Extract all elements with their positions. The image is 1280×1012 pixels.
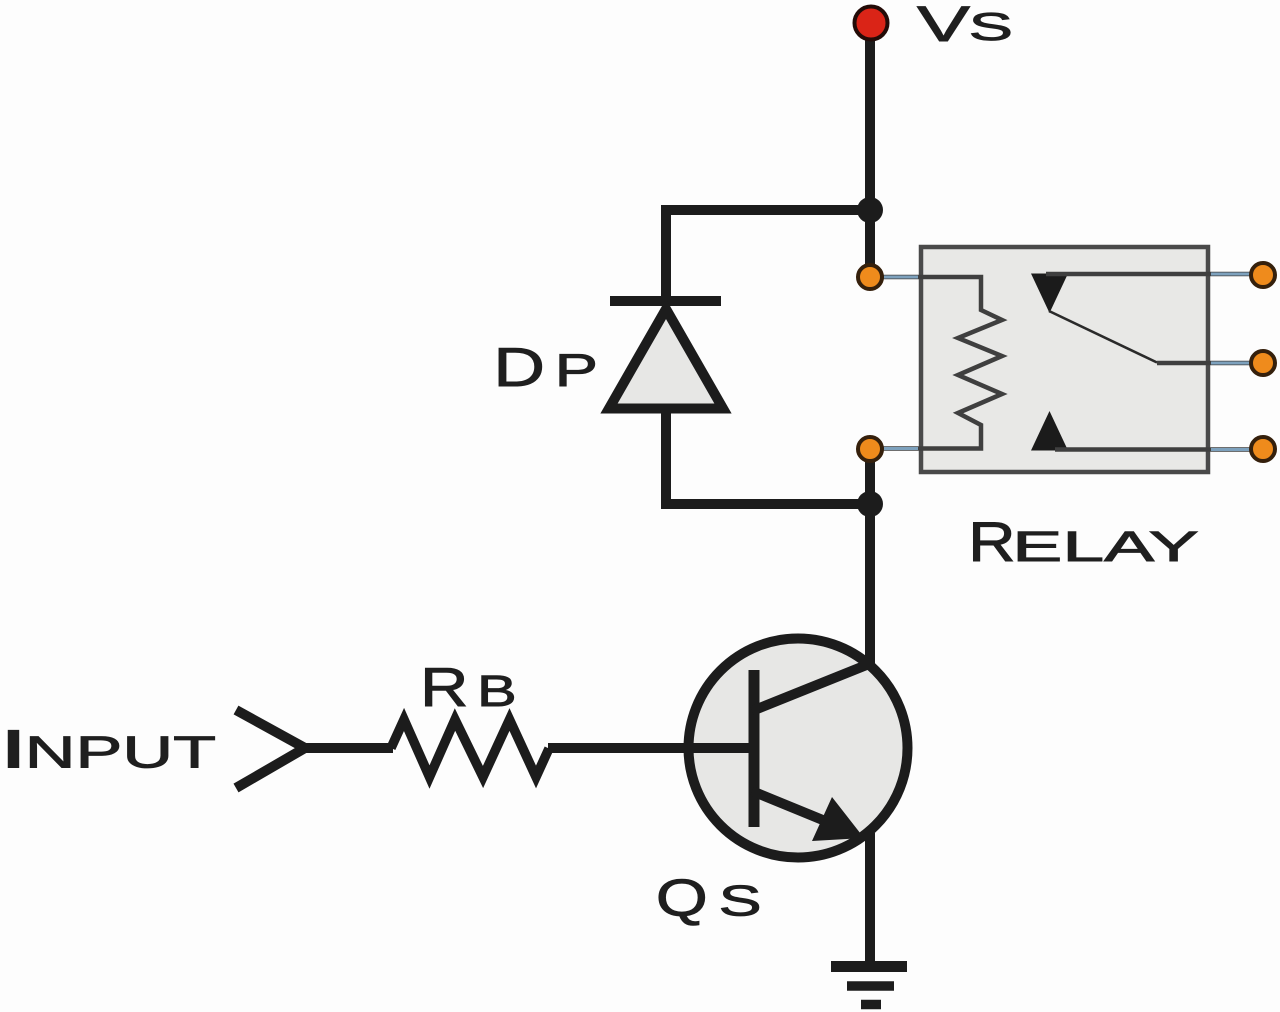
relay contact top (normally-closed) bbox=[1031, 274, 1068, 314]
svg-text:B: B bbox=[477, 667, 517, 716]
wire stub blue right top bbox=[1211, 273, 1250, 276]
relay contact bottom (normally-open) bbox=[1031, 411, 1068, 451]
diode Dp triangle bbox=[609, 309, 723, 409]
svg-text:ELAY: ELAY bbox=[1012, 524, 1198, 571]
wire stub blue left bottom bbox=[884, 447, 918, 450]
wire relay top contact to pin bbox=[1046, 272, 1252, 277]
wire bottom branch bbox=[661, 499, 875, 509]
wire stub blue right bottom bbox=[1211, 448, 1250, 451]
ground bar 3 bbox=[861, 1000, 881, 1010]
wire relay common pin bbox=[1157, 361, 1252, 366]
transistor emitter lead bbox=[752, 791, 852, 832]
ground bar 1 bbox=[831, 961, 907, 972]
wire Vs drop bbox=[865, 28, 875, 210]
wire diode anode drop bbox=[661, 406, 671, 504]
wire relay pin2 to collector bbox=[865, 446, 875, 668]
svg-text:I: I bbox=[0, 720, 28, 780]
node relay pin5 bbox=[1251, 437, 1275, 461]
wire top branch to diode bbox=[661, 205, 875, 215]
input chevron bbox=[236, 710, 305, 788]
resistor Rb bbox=[391, 720, 549, 778]
svg-text:P: P bbox=[555, 344, 598, 396]
transistor emitter arrowhead bbox=[812, 797, 864, 841]
svg-text:V: V bbox=[917, 0, 971, 52]
relay coil bbox=[883, 277, 1002, 449]
transistor Qs body bbox=[689, 639, 908, 858]
svg-text:D: D bbox=[493, 336, 545, 398]
wire diode cathode drop bbox=[661, 205, 671, 302]
wire junction to relay pin1 bbox=[865, 210, 875, 280]
node relay pin1 bbox=[858, 265, 882, 289]
svg-text:R: R bbox=[968, 510, 1016, 573]
diode Dp cathode bar bbox=[610, 296, 721, 306]
junction J1 bbox=[857, 197, 883, 223]
svg-text:NPUT: NPUT bbox=[25, 727, 216, 778]
node relay pin2 bbox=[858, 437, 882, 461]
relay armature bbox=[1049, 311, 1157, 363]
relay REL1 body bbox=[921, 247, 1208, 472]
svg-text:S: S bbox=[719, 878, 762, 926]
wire input bbox=[303, 743, 393, 753]
wire relay bottom contact to pin bbox=[1055, 447, 1252, 452]
wire base bbox=[548, 743, 756, 753]
svg-text:R: R bbox=[420, 656, 469, 718]
junction J2 bbox=[857, 491, 883, 517]
svg-text:S: S bbox=[969, 6, 1013, 49]
wire stub blue right middle bbox=[1211, 362, 1250, 365]
node Vs terminal bbox=[855, 7, 888, 40]
node relay pin3 bbox=[1251, 263, 1275, 287]
node relay pin4 bbox=[1251, 351, 1275, 375]
transistor collector lead bbox=[752, 662, 874, 711]
wire emitter drop bbox=[865, 833, 875, 962]
wire stub blue left top bbox=[884, 276, 918, 279]
ground bar 2 bbox=[847, 981, 894, 991]
transistor Qs base bar bbox=[749, 670, 760, 827]
svg-text:Q: Q bbox=[656, 870, 708, 928]
